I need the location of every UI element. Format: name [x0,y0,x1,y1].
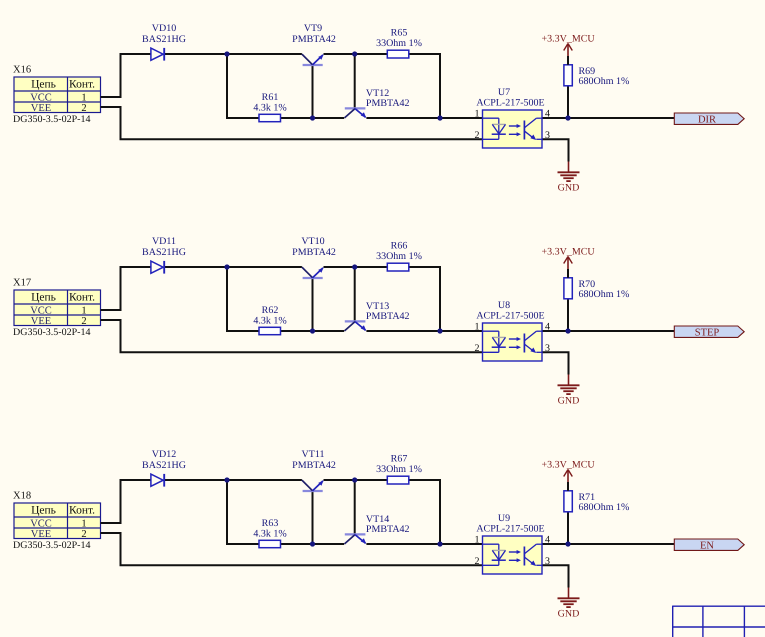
node VT13 base on top rail [352,264,357,269]
svg-text:VCC: VCC [30,93,52,104]
resistor R61 4.3k [253,92,286,122]
svg-text:GND: GND [558,396,580,407]
wire opto pin4 to port [542,330,674,332]
svg-text:Конт.: Конт. [69,78,95,90]
connector X16 [13,65,101,125]
svg-text:ACPL-217-500E: ACPL-217-500E [476,311,544,322]
svg-text:680Ohm 1%: 680Ohm 1% [579,502,630,513]
node opto pin4 / pull-up / port [565,541,570,546]
wire opto pin3 to ground [542,139,569,161]
wire base lead VT14 [354,480,356,534]
resistor R67 33Ohm [376,453,422,484]
node VT12 base on top rail [352,51,357,56]
resistor R65 33Ohm [376,27,422,58]
wire opto pin4 to port [542,543,674,545]
op-amp U9 optocoupler ACPL-217-500E [475,513,551,574]
svg-text:PMBTA42: PMBTA42 [292,34,336,45]
svg-text:2: 2 [475,556,480,567]
svg-text:BAS21HG: BAS21HG [142,34,186,45]
svg-text:4: 4 [545,109,550,120]
node VT14 base on top rail [352,477,357,482]
resistor R71 680Ohm [564,482,629,513]
wire base lead VT10 [312,278,314,331]
svg-text:2: 2 [81,103,86,114]
wire VT bottom emitter to opto pin1 [366,117,482,119]
node diode-cathode / base branch [224,477,229,482]
svg-text:VEE: VEE [31,316,51,327]
ground GND [558,375,580,407]
svg-text:VCC: VCC [30,306,52,317]
node diode-cathode / base branch [224,264,229,269]
wire VCC pin1 to diode [101,267,152,310]
svg-text:4.3k 1%: 4.3k 1% [253,103,286,114]
svg-text:1: 1 [475,322,480,333]
wire R base to VT bottom [281,330,345,332]
resistor R69 680Ohm [564,56,629,87]
svg-text:X18: X18 [13,491,31,502]
svg-text:680Ohm 1%: 680Ohm 1% [579,289,630,300]
wire top emitter to R series [324,479,388,481]
svg-text:1: 1 [81,93,86,104]
node emitter / R series junction [437,328,442,333]
connector X17 [13,278,101,338]
transistor VT14 [345,514,410,544]
wire diode cathode to VT collector [165,479,302,481]
svg-text:1: 1 [475,109,480,120]
svg-text:PMBTA42: PMBTA42 [292,460,336,471]
svg-text:4.3k 1%: 4.3k 1% [253,529,286,540]
wire VCC pin1 to diode [101,480,152,523]
wire pull-up branch [567,299,569,331]
svg-text:3: 3 [545,556,550,567]
op-amp U8 optocoupler ACPL-217-500E [475,300,551,361]
svg-text:R61: R61 [262,92,279,103]
ground GND [558,162,580,194]
wire R series to opto node [409,267,440,331]
svg-text:VEE: VEE [31,103,51,114]
op-amp U7 optocoupler ACPL-217-500E [475,87,551,148]
svg-text:VT10: VT10 [301,236,324,247]
svg-text:VD12: VD12 [152,449,176,460]
svg-text:X16: X16 [13,65,31,76]
svg-text:1: 1 [81,519,86,530]
svg-text:R62: R62 [262,305,279,316]
resistor R70 680Ohm [564,269,629,300]
wire top emitter to R series [324,266,388,268]
svg-text:DG350-3.5-02P-14: DG350-3.5-02P-14 [13,114,91,125]
svg-text:4.3k 1%: 4.3k 1% [253,316,286,327]
power +3.3V_MCU [542,33,596,56]
svg-text:2: 2 [475,343,480,354]
wire R series to opto node [409,480,440,544]
wire base lead VT12 [354,54,356,108]
svg-text:R65: R65 [391,27,408,38]
wire R base to VT bottom [281,117,345,119]
wire diode cathode to VT collector [165,53,302,55]
port DIR [674,113,744,125]
svg-text:Цепь: Цепь [31,291,56,303]
port STEP [674,326,744,338]
wire diode cathode to VT collector [165,266,302,268]
node opto pin4 / pull-up / port [565,328,570,333]
node diode-cathode / base branch [224,51,229,56]
wire opto pin3 to ground [542,352,569,374]
wire R series to opto node [409,54,440,118]
wire opto pin4 to port [542,117,674,119]
svg-text:+3.3V_MCU: +3.3V_MCU [542,459,596,470]
node emitter / R series junction [437,115,442,120]
svg-text:ACPL-217-500E: ACPL-217-500E [476,98,544,109]
svg-text:R63: R63 [262,518,279,529]
svg-text:DG350-3.5-02P-14: DG350-3.5-02P-14 [13,327,91,338]
wire VT bottom emitter to opto pin1 [366,330,482,332]
diode VD11 [142,236,186,274]
wire base lead VT11 [312,491,314,544]
svg-text:33Ohm 1%: 33Ohm 1% [376,464,422,475]
svg-text:X17: X17 [13,278,31,289]
title block grid [673,606,765,637]
svg-text:Конт.: Конт. [69,504,95,516]
wire opto pin3 to ground [542,565,569,587]
wire pull-up branch [567,86,569,118]
transistor VT12 [345,88,410,118]
port EN [674,539,744,551]
svg-text:Цепь: Цепь [31,504,56,516]
diode VD12 [142,449,186,487]
wire base branch down to R base [227,54,259,118]
svg-text:PMBTA42: PMBTA42 [366,311,410,322]
svg-text:Конт.: Конт. [69,291,95,303]
svg-text:33Ohm 1%: 33Ohm 1% [376,38,422,49]
power +3.3V_MCU [542,246,596,269]
node opto pin4 / pull-up / port [565,115,570,120]
svg-text:GND: GND [558,609,580,620]
svg-text:33Ohm 1%: 33Ohm 1% [376,251,422,262]
svg-text:DG350-3.5-02P-14: DG350-3.5-02P-14 [13,540,91,551]
svg-text:BAS21HG: BAS21HG [142,247,186,258]
wire base branch down to R base [227,480,259,544]
transistor VT10 [292,236,336,278]
svg-text:R66: R66 [391,240,408,251]
node emitter / R series junction [437,541,442,546]
svg-text:R67: R67 [391,453,408,464]
svg-text:U7: U7 [498,87,510,98]
svg-text:VCC: VCC [30,519,52,530]
node VT9 base on bottom rail [310,115,315,120]
svg-text:PMBTA42: PMBTA42 [366,98,410,109]
power +3.3V_MCU [542,459,596,482]
svg-text:4: 4 [545,322,550,333]
wire VEE pin2 bottom rail [101,533,483,565]
svg-text:PMBTA42: PMBTA42 [292,247,336,258]
node VT11 base on bottom rail [310,541,315,546]
svg-text:4: 4 [545,535,550,546]
diode VD10 [142,23,186,61]
transistor VT11 [292,449,336,491]
wire top emitter to R series [324,53,388,55]
svg-text:2: 2 [475,130,480,141]
svg-text:ACPL-217-500E: ACPL-217-500E [476,524,544,535]
svg-text:PMBTA42: PMBTA42 [366,524,410,535]
wire R base to VT bottom [281,543,345,545]
wire VEE pin2 bottom rail [101,107,483,139]
svg-text:VD10: VD10 [152,23,176,34]
svg-text:680Ohm 1%: 680Ohm 1% [579,76,630,87]
svg-text:VEE: VEE [31,529,51,540]
svg-text:1: 1 [475,535,480,546]
wire base lead VT13 [354,267,356,321]
svg-text:2: 2 [81,316,86,327]
svg-text:STEP: STEP [695,327,720,338]
svg-text:2: 2 [81,529,86,540]
wire VCC pin1 to diode [101,54,152,97]
svg-text:BAS21HG: BAS21HG [142,460,186,471]
wire VT bottom emitter to opto pin1 [366,543,482,545]
node VT10 base on bottom rail [310,328,315,333]
svg-text:+3.3V_MCU: +3.3V_MCU [542,33,596,44]
connector X18 [13,491,101,551]
svg-text:GND: GND [558,183,580,194]
wire pull-up branch [567,512,569,544]
resistor R63 4.3k [253,518,286,548]
svg-text:+3.3V_MCU: +3.3V_MCU [542,246,596,257]
svg-text:1: 1 [81,306,86,317]
transistor VT13 [345,301,410,331]
wire base branch down to R base [227,267,259,331]
svg-text:VT9: VT9 [304,23,322,34]
svg-text:EN: EN [700,540,714,551]
wire base lead VT9 [312,65,314,118]
svg-text:VD11: VD11 [152,236,176,247]
svg-text:3: 3 [545,343,550,354]
resistor R66 33Ohm [376,240,422,271]
transistor VT9 [292,23,336,65]
wire VEE pin2 bottom rail [101,320,483,352]
svg-text:U8: U8 [498,300,510,311]
svg-text:DIR: DIR [698,114,716,125]
ground GND [558,588,580,620]
svg-text:3: 3 [545,130,550,141]
svg-text:Цепь: Цепь [31,78,56,90]
svg-text:VT11: VT11 [302,449,325,460]
svg-text:U9: U9 [498,513,510,524]
resistor R62 4.3k [253,305,286,335]
